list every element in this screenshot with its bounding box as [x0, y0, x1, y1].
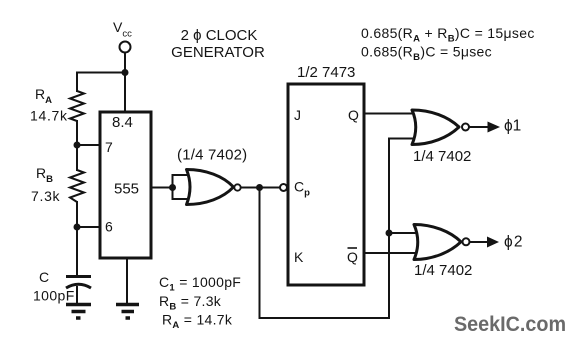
svg-text:0.685(RA + RB)C = 15μsec: 0.685(RA + RB)C = 15μsec	[361, 25, 535, 45]
node junction clock to U3	[386, 230, 393, 237]
wire clock node down	[259, 188, 261, 319]
svg-text:8.4: 8.4	[112, 114, 133, 131]
svg-text:(1/4 7402): (1/4 7402)	[177, 147, 247, 164]
svg-text:RB: RB	[36, 165, 53, 185]
ground (capacitor C)	[66, 305, 91, 319]
ground (555 pin 1)	[116, 305, 139, 319]
svg-text:1/4 7402: 1/4 7402	[414, 262, 472, 279]
wire pin 7 stub	[77, 144, 100, 146]
wire Q to U2 upper input	[364, 113, 416, 115]
resistor RA 14.7k	[70, 91, 84, 121]
wire clock bottom run	[260, 317, 390, 319]
svg-text:100pF: 100pF	[33, 288, 75, 304]
wire clock to U3 upper input	[389, 232, 419, 234]
wire NOR U1 output to Cp node	[241, 187, 280, 189]
op-amp U2 NOR gate 1/4 7402 (phi1)	[412, 110, 459, 145]
wire RA bottom to RB top	[76, 121, 78, 170]
resistor RB 7.3k	[70, 170, 84, 202]
wire 555 output	[151, 187, 173, 189]
svg-text:14.7k: 14.7k	[30, 108, 68, 124]
wire clock to U2 lower input	[389, 138, 416, 140]
node junction 555 output	[169, 184, 176, 191]
bubble Cp clock input	[280, 184, 287, 191]
bubble U1 output	[234, 184, 240, 190]
svg-text:7: 7	[105, 139, 113, 155]
svg-text:6: 6	[105, 219, 113, 235]
wire capacitor C to ground	[76, 287, 78, 304]
wire clock up to gates	[388, 139, 390, 319]
svg-text:555: 555	[114, 181, 139, 198]
wire Vcc terminal to 555 top (pins 8.4)	[124, 53, 126, 112]
node junction RA/RB pin7	[74, 142, 81, 149]
svg-text:RB = 7.3k: RB = 7.3k	[159, 293, 222, 313]
svg-text:1/2 7473: 1/2 7473	[297, 64, 355, 81]
wire phi1 output arrow line	[470, 126, 491, 128]
arrowhead phi2	[487, 237, 499, 248]
svg-text:K: K	[294, 249, 304, 265]
bubble U2 output	[462, 124, 469, 131]
svg-text:GENERATOR: GENERATOR	[171, 44, 265, 61]
svg-text:Q: Q	[348, 107, 359, 123]
svg-text:RA: RA	[35, 86, 52, 106]
wire Qbar to U3 lower input	[364, 252, 419, 254]
svg-text:SeekIC.com: SeekIC.com	[454, 312, 566, 336]
node junction clock	[256, 184, 263, 191]
svg-text:ϕ2: ϕ2	[504, 234, 524, 251]
node junction RB/C pin6	[74, 224, 81, 231]
wire RB bottom to capacitor C	[76, 202, 78, 275]
wire Vcc rail to RA branch	[77, 72, 125, 74]
wire RA top lead	[76, 73, 78, 92]
svg-text:C1 = 1000pF: C1 = 1000pF	[159, 274, 241, 294]
svg-text:Vcc: Vcc	[113, 19, 132, 40]
svg-text:1/4 7402: 1/4 7402	[413, 148, 471, 165]
power terminal Vcc	[120, 42, 131, 53]
op-amp U3 NOR gate 1/4 7402 (phi2)	[414, 225, 461, 260]
wire pin 6 stub	[77, 226, 101, 228]
svg-text:0.685(RB)C = 5μsec: 0.685(RB)C = 5μsec	[361, 44, 492, 64]
wire 555 ground pin	[126, 258, 128, 304]
svg-text:Q: Q	[347, 249, 358, 265]
svg-text:7.3k: 7.3k	[31, 188, 61, 204]
node junction Vcc rail	[122, 69, 129, 76]
capacitor C 100pF top plate	[66, 275, 91, 278]
flip-flop U4 1/2 7473 body	[288, 84, 364, 285]
arrowhead phi1	[488, 122, 501, 133]
svg-text:2 ϕ CLOCK: 2 ϕ CLOCK	[181, 27, 258, 44]
op-amp U1 NOR gate 1/4 7402 (clock inverter)	[187, 170, 234, 205]
overline of Qbar	[348, 247, 358, 249]
bubble U3 output	[463, 238, 470, 245]
555 timer U0 body	[100, 112, 151, 258]
svg-text:C: C	[39, 269, 49, 285]
wire NOR U1 tied-input bracket	[173, 175, 188, 199]
svg-text:J: J	[294, 107, 301, 123]
capacitor C 100pF bottom curved plate	[66, 284, 91, 288]
wire phi2 output arrow line	[470, 241, 490, 243]
svg-text:RA = 14.7k: RA = 14.7k	[162, 312, 233, 332]
svg-text:ϕ1: ϕ1	[504, 118, 521, 135]
